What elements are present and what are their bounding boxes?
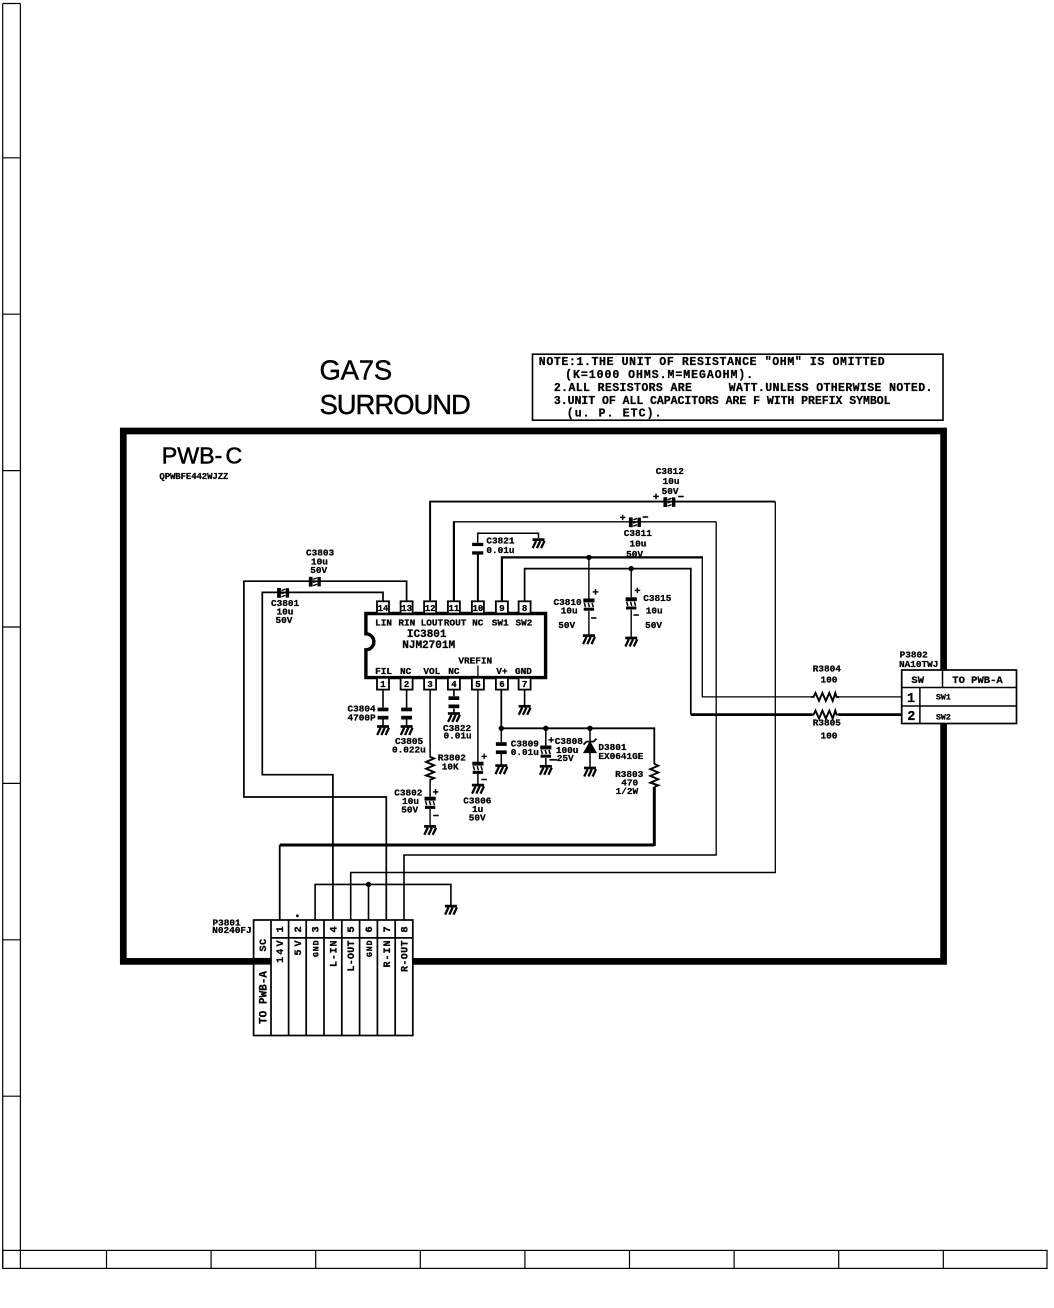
svg-text:2: 2 <box>404 680 409 690</box>
pin 6 <box>496 678 508 690</box>
title GA7S SURROUND <box>320 354 472 420</box>
svg-text:GND: GND <box>313 940 322 957</box>
pin 5 <box>472 678 484 690</box>
svg-text:NC: NC <box>400 666 412 677</box>
svg-text:SW2: SW2 <box>936 714 951 723</box>
IC internal labels <box>375 617 533 677</box>
ground for C3809 <box>495 766 507 775</box>
svg-text:12: 12 <box>425 604 436 614</box>
capacitor C3802 <box>425 797 436 809</box>
ground for C3821 <box>533 540 545 549</box>
resistor R3804 <box>811 693 839 701</box>
junction dot V+/C3809 <box>499 726 504 731</box>
svg-text:−: − <box>481 775 487 787</box>
svg-text:+: + <box>634 586 640 598</box>
svg-text:SW: SW <box>911 675 924 687</box>
svg-text:GND: GND <box>366 940 375 957</box>
pin 14 <box>377 601 389 614</box>
svg-text:SW1: SW1 <box>492 617 509 628</box>
resistor R3802 (pin3) <box>429 690 431 797</box>
svg-text:50V: 50V <box>662 486 679 497</box>
svg-text:10u: 10u <box>646 606 663 617</box>
svg-text:VOL: VOL <box>423 666 440 677</box>
svg-text:SC: SC <box>259 939 270 952</box>
svg-text:10: 10 <box>472 604 483 614</box>
capacitor C3805 (pin2) <box>406 690 408 726</box>
svg-text:C3815: C3815 <box>643 593 672 604</box>
capacitor C3811 <box>629 517 641 527</box>
note box <box>533 354 944 421</box>
svg-text:5: 5 <box>346 926 358 932</box>
svg-text:RIN: RIN <box>398 617 415 628</box>
svg-text:SW1: SW1 <box>936 694 951 703</box>
pin name labels <box>276 940 411 972</box>
resistor R3803 <box>650 764 658 787</box>
svg-text:25V: 25V <box>557 753 574 764</box>
capacitor C3815 <box>626 597 637 609</box>
svg-text:NC: NC <box>448 666 460 677</box>
svg-text:0.01u: 0.01u <box>511 747 539 758</box>
capacitor C3801 <box>277 588 289 598</box>
pin 1 <box>377 678 389 690</box>
ground for C3806 <box>472 785 484 794</box>
capacitor C3812 <box>663 497 675 507</box>
board PWB-C border <box>123 431 943 961</box>
svg-text:LOUT: LOUT <box>421 617 444 628</box>
svg-text:13: 13 <box>401 604 412 614</box>
svg-text:GA7S: GA7S <box>320 354 393 385</box>
svg-text:VREFIN: VREFIN <box>458 656 492 667</box>
svg-text:1/2W: 1/2W <box>616 786 639 797</box>
svg-text:R3804: R3804 <box>813 664 842 675</box>
pin 12 <box>424 601 436 614</box>
svg-text:QPWBFE442WJZZ: QPWBFE442WJZZ <box>159 472 228 482</box>
svg-text:5: 5 <box>475 680 480 690</box>
svg-text:6: 6 <box>364 926 376 932</box>
wire LIN net: pin14 riser and horizontal to C3801 <box>262 592 383 920</box>
capacitor C3810 <box>583 599 594 611</box>
svg-text:100: 100 <box>821 730 838 741</box>
svg-text:2.ALL RESISTORS ARE WATT.U: 2.ALL RESISTORS ARE WATT.UNLESS OTHERWIS… <box>554 382 933 395</box>
svg-text:NC: NC <box>472 617 484 628</box>
wire LOUT net: pin12 riser, top run through C3812, down right side, across to P3801 pin5 <box>429 502 431 602</box>
PWB-C border across SC column <box>254 958 271 965</box>
svg-text:7: 7 <box>522 680 527 690</box>
svg-text:−: − <box>591 614 597 626</box>
ground pin7 <box>524 690 526 706</box>
wire RIN net: pin13 riser, C3803, down, right, down to P3801 pin7 <box>244 581 407 920</box>
pin 2 <box>401 678 413 690</box>
junction dot SW1/C3810 <box>586 555 591 560</box>
pin 3 <box>424 678 436 690</box>
svg-text:10K: 10K <box>442 762 459 773</box>
svg-text:EX0641GE: EX0641GE <box>598 751 643 762</box>
svg-text:SURROUND: SURROUND <box>320 389 472 420</box>
capacitor C3809 <box>500 728 502 764</box>
svg-text:3.UNIT OF ALL CAPACITORS ARE F: 3.UNIT OF ALL CAPACITORS ARE F WITH PREF… <box>554 395 891 408</box>
svg-text:50V: 50V <box>276 615 293 626</box>
svg-text:14V: 14V <box>276 941 287 964</box>
svg-text:L-IN: L-IN <box>329 941 340 968</box>
svg-text:50V: 50V <box>469 813 486 824</box>
svg-text:3: 3 <box>311 926 323 932</box>
pin numbers <box>275 926 411 932</box>
ground for C3822 <box>448 714 460 723</box>
svg-text:NOTE:1.THE UNIT OF RESISTANCE: NOTE:1.THE UNIT OF RESISTANCE "OHM" IS O… <box>539 356 885 369</box>
svg-text:4: 4 <box>451 680 457 690</box>
svg-text:+: + <box>653 492 659 504</box>
connector P3801 frame <box>254 920 413 1036</box>
svg-text:7: 7 <box>382 926 394 932</box>
wire 14V drop to P3801 pin1 <box>279 845 281 920</box>
wire pin10 to C3821 <box>477 552 479 601</box>
capacitor C3804 (pin1) <box>382 690 384 726</box>
svg-text:LIN: LIN <box>375 617 392 628</box>
junction dot V+/C3808 <box>543 726 548 731</box>
svg-text:4: 4 <box>328 926 340 932</box>
svg-text:0.01u: 0.01u <box>486 545 514 556</box>
svg-text:3: 3 <box>427 680 432 690</box>
svg-text:(K=1000 OHMS.M=MEGAOHM).: (K=1000 OHMS.M=MEGAOHM). <box>565 369 753 382</box>
wire SW1 net: pin9 riser and run to corner <box>501 557 703 601</box>
svg-text:50V: 50V <box>645 620 662 631</box>
svg-text:10u: 10u <box>630 538 647 549</box>
svg-text:N0240FJ: N0240FJ <box>212 925 251 936</box>
wire SW2 to P3802 (thick) <box>691 713 902 716</box>
svg-text:+: + <box>481 752 487 764</box>
wire 14V thick rail <box>280 844 655 847</box>
stub dot above P3801 pin2 <box>296 914 299 917</box>
svg-text:−: − <box>433 811 439 823</box>
svg-text:+: + <box>620 513 626 525</box>
ground for C3804 <box>377 727 389 736</box>
wire C3810 leg <box>588 557 590 634</box>
connector P3802 table <box>902 670 1017 724</box>
pin 7 <box>519 678 531 690</box>
bottom margin band <box>3 1250 1047 1268</box>
svg-text:+: + <box>548 736 554 748</box>
svg-text:NA10TWJ: NA10TWJ <box>899 659 938 670</box>
svg-text:50V: 50V <box>558 620 575 631</box>
pin 10 <box>472 601 484 614</box>
ground for C3810 <box>583 636 595 645</box>
svg-text:TO PWB-A: TO PWB-A <box>952 675 1003 687</box>
junction dot SW2/C3815 <box>629 566 634 571</box>
left margin strip <box>3 4 21 1269</box>
svg-text:ROUT: ROUT <box>444 617 467 628</box>
svg-text:50V: 50V <box>401 805 418 816</box>
svg-text:L-OUT: L-OUT <box>347 941 358 972</box>
op-amp IC3801 body <box>366 614 546 678</box>
capacitor C3806 (pin5) <box>477 690 479 784</box>
ground for IC pin 7 <box>519 706 531 715</box>
pin 8 <box>519 601 531 614</box>
svg-text:R-IN: R-IN <box>383 941 394 968</box>
ground for C3802 <box>424 826 436 835</box>
svg-text:TO PWB-A: TO PWB-A <box>259 971 271 1024</box>
resistor R3805 <box>811 711 839 719</box>
svg-text:SW2: SW2 <box>515 617 532 628</box>
pin 4 <box>448 678 460 690</box>
wire C3815 leg <box>630 569 632 637</box>
svg-text:PWB-C: PWB-C <box>162 443 242 469</box>
svg-text:0.022u: 0.022u <box>392 744 426 755</box>
svg-text:V+: V+ <box>496 666 508 677</box>
svg-text:GND: GND <box>515 666 532 677</box>
svg-text:100: 100 <box>821 675 838 686</box>
wire V+ <box>501 690 654 764</box>
svg-text:+: + <box>433 787 439 799</box>
wire SW2 net: pin8 riser and run to corner <box>525 569 691 715</box>
chassis ground <box>445 906 457 915</box>
svg-text:+: + <box>592 587 598 599</box>
svg-text:8: 8 <box>522 604 527 614</box>
svg-text:1: 1 <box>275 926 287 932</box>
capacitor C3821 <box>472 543 483 555</box>
svg-text:14: 14 <box>378 604 389 614</box>
mask over board border <box>271 956 413 968</box>
junction dot GND/pin6 <box>366 882 371 887</box>
svg-text:8: 8 <box>400 926 412 932</box>
wire ROUT net: pin11 riser, run through C3811, down, across to P3801 pin8 <box>453 522 455 602</box>
svg-text:R-OUT: R-OUT <box>401 941 412 973</box>
ground for C3808 <box>540 766 552 775</box>
svg-text:FIL: FIL <box>375 666 392 677</box>
svg-text:2: 2 <box>293 926 305 932</box>
svg-text:−: − <box>678 492 684 504</box>
svg-text:R3805: R3805 <box>813 718 842 729</box>
ground for C3805 <box>401 727 413 736</box>
svg-text:50V: 50V <box>310 565 327 576</box>
capacitor C3808 <box>545 728 547 765</box>
svg-text:2: 2 <box>907 710 915 725</box>
VREFIN pointer line <box>477 666 479 678</box>
svg-text:0.01u: 0.01u <box>444 731 472 742</box>
zener diode D3801 <box>584 728 597 776</box>
wire GND net <box>315 884 451 920</box>
svg-text:6: 6 <box>499 680 504 690</box>
pin 13 <box>401 601 413 614</box>
svg-text:9: 9 <box>499 604 504 614</box>
svg-text:−: − <box>642 512 648 524</box>
svg-text:1: 1 <box>380 680 386 690</box>
pin 11 <box>448 601 460 614</box>
ground for C3815 <box>625 638 637 647</box>
svg-text:1: 1 <box>907 692 915 707</box>
capacitor C3803 <box>309 577 321 587</box>
capacitor C3822 (pin4) <box>453 690 455 713</box>
svg-text:4700P: 4700P <box>348 712 377 723</box>
svg-text:(u. P. ETC).: (u. P. ETC). <box>567 408 662 421</box>
svg-text:10u: 10u <box>561 606 578 617</box>
svg-text:NJM2701M: NJM2701M <box>402 640 455 652</box>
svg-text:11: 11 <box>448 604 459 614</box>
junction dot V+/D3801 <box>587 726 592 731</box>
pin 9 <box>496 601 508 614</box>
svg-text:−: − <box>633 610 639 622</box>
